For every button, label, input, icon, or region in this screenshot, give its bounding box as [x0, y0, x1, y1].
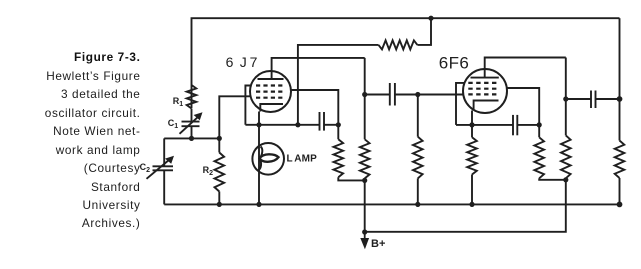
wire 6J7 plate lead [272, 58, 365, 79]
node 6F6 resistor bottoms [563, 177, 568, 182]
node output cap tap [563, 96, 568, 101]
wire 6J7 suppressor tie [245, 86, 251, 125]
node grid junction [217, 136, 222, 141]
wire junction down to C2 [163, 138, 165, 166]
power B+ arrow [360, 232, 369, 249]
6J7 grid rows [256, 86, 282, 98]
wire 6J7 screen lead [291, 90, 338, 139]
wire R1 to C1 [191, 109, 193, 122]
svg-text:R1: R1 [173, 96, 184, 108]
wire ground rail [164, 203, 619, 205]
wire B+ feed stage2 [365, 180, 566, 232]
node lamp ground [256, 202, 261, 207]
node feedback-to-top-rail junction [428, 16, 433, 21]
svg-text:C1: C1 [168, 118, 179, 130]
resistor 6J7 screen load [334, 139, 365, 180]
wire grid lead of 6J7 [219, 96, 251, 138]
node cathode lead [256, 122, 261, 127]
wire cathode down through lamp to rail [258, 112, 260, 205]
node plate/screen resistor bottoms [362, 178, 367, 183]
svg-text:6F6: 6F6 [439, 53, 470, 72]
svg-text:LAMP: LAMP [287, 154, 318, 165]
resistor 6F6 screen load [534, 137, 565, 180]
wire 6F6 grid lead [418, 94, 464, 96]
wire B+ feed stage1 [364, 180, 366, 232]
lamp bulb [252, 143, 284, 175]
node R2 ground [217, 202, 222, 207]
node feedback tap [295, 122, 300, 127]
resistor output load [615, 141, 625, 205]
6F6 grid rows [468, 83, 496, 95]
wire 6J7 plate branch down [364, 58, 366, 139]
capacitor 6J7 cathode bypass [320, 112, 325, 131]
wire C1 to Wien junction [191, 126, 193, 138]
node rail end [617, 202, 623, 208]
svg-text:R2: R2 [203, 165, 214, 177]
wire Wien junction bar [164, 137, 219, 139]
capacitor interstage coupling [365, 83, 418, 106]
node screen branch tap [336, 122, 341, 127]
wire 6F6 plate lead [485, 58, 566, 78]
svg-text:C2: C2 [140, 162, 151, 174]
wire feedback from top rail [417, 18, 431, 45]
resistor 6J7 plate load [360, 139, 370, 178]
node 6F6 grid junction [415, 92, 420, 97]
6J7 plate [258, 78, 284, 80]
capacitor C1 (variable) [180, 112, 203, 134]
node coupling cap tap [362, 92, 367, 97]
node 6F6 cathode lead [469, 122, 474, 127]
wire 6F6 plate branch down [565, 58, 567, 136]
wire 6F6 screen lead [507, 88, 539, 137]
capacitor C2 (variable) [147, 156, 175, 179]
wire feedback resistor to cathode [298, 45, 379, 125]
node B+ junction [362, 229, 367, 234]
6J7 cathode [260, 104, 283, 112]
wire C2 to ground rail [163, 170, 165, 204]
wire 6J7 cathode line [245, 124, 319, 126]
capacitor 6F6 screen bypass [513, 115, 539, 135]
resistor 6F6 grid leak [413, 95, 423, 205]
resistor R2 [215, 138, 225, 204]
svg-text:6J7: 6J7 [226, 54, 258, 70]
tube 6F6 envelope [463, 69, 507, 113]
resistor R1 [187, 85, 197, 109]
6F6 cathode [474, 101, 499, 111]
node cathode bias ground [469, 202, 474, 207]
wire top output rail [192, 18, 620, 108]
resistor 6F6 plate load [561, 135, 571, 178]
tube 6J7 envelope [250, 71, 291, 112]
wire bypass cap to screen branch [324, 124, 338, 126]
wire 6F6 cathode down [471, 111, 473, 138]
resistor 6F6 cathode bias [467, 137, 477, 204]
node 6F6 screen tap [537, 122, 542, 127]
node output [617, 96, 623, 102]
svg-text:B+: B+ [371, 238, 385, 250]
wire 6F6 cathode line [456, 124, 513, 126]
node C1 junction [189, 136, 194, 141]
capacitor output [566, 91, 620, 109]
resistor feedback (horizontal) [379, 40, 418, 49]
wire output rail down [619, 18, 621, 140]
node grid leak ground [415, 202, 420, 207]
6F6 plate [471, 77, 499, 79]
wire 6F6 suppressor tie [456, 83, 465, 125]
